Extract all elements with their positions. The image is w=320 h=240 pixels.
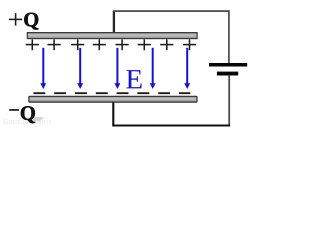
- plus charge 8: [183, 39, 196, 50]
- battery short plate (- terminal): [217, 72, 238, 76]
- minus charges row above bottom plate: [33, 92, 190, 94]
- battery long plate (+ terminal): [209, 63, 247, 67]
- plus charge 7: [160, 39, 173, 50]
- wire right vertical upper (to battery +): [228, 10, 230, 63]
- plus charge 2: [48, 39, 61, 50]
- field arrow 1: [40, 48, 46, 89]
- wire bottom horizontal: [112, 125, 230, 127]
- wire stub to bottom plate: [112, 102, 114, 126]
- plus charge 6: [138, 39, 151, 50]
- watermark: [3, 117, 51, 127]
- label +Q : Q: [24, 13, 38, 30]
- label E (field): [126, 70, 141, 88]
- field arrow 5: [184, 48, 190, 89]
- wire stub from top plate: [113, 11, 115, 32]
- field arrow 2: [77, 48, 83, 89]
- field arrow 3: [114, 48, 120, 89]
- field arrow 4: [150, 48, 156, 89]
- wire right vertical lower (from battery -): [228, 75, 230, 125]
- E-field arrows: [40, 48, 190, 89]
- plus charge 3: [71, 39, 84, 50]
- plus charge 1: [26, 39, 39, 50]
- wire top horizontal: [113, 10, 229, 12]
- plus charge 5: [116, 39, 129, 50]
- label +Q : plus sign: [9, 13, 22, 25]
- label -Q : Q: [21, 106, 35, 123]
- top capacitor plate: [27, 33, 197, 39]
- plus charge 4: [93, 39, 106, 50]
- bottom capacitor plate: [29, 96, 197, 102]
- plus charges on top plate: [26, 39, 196, 50]
- label -Q : minus sign: [9, 109, 19, 111]
